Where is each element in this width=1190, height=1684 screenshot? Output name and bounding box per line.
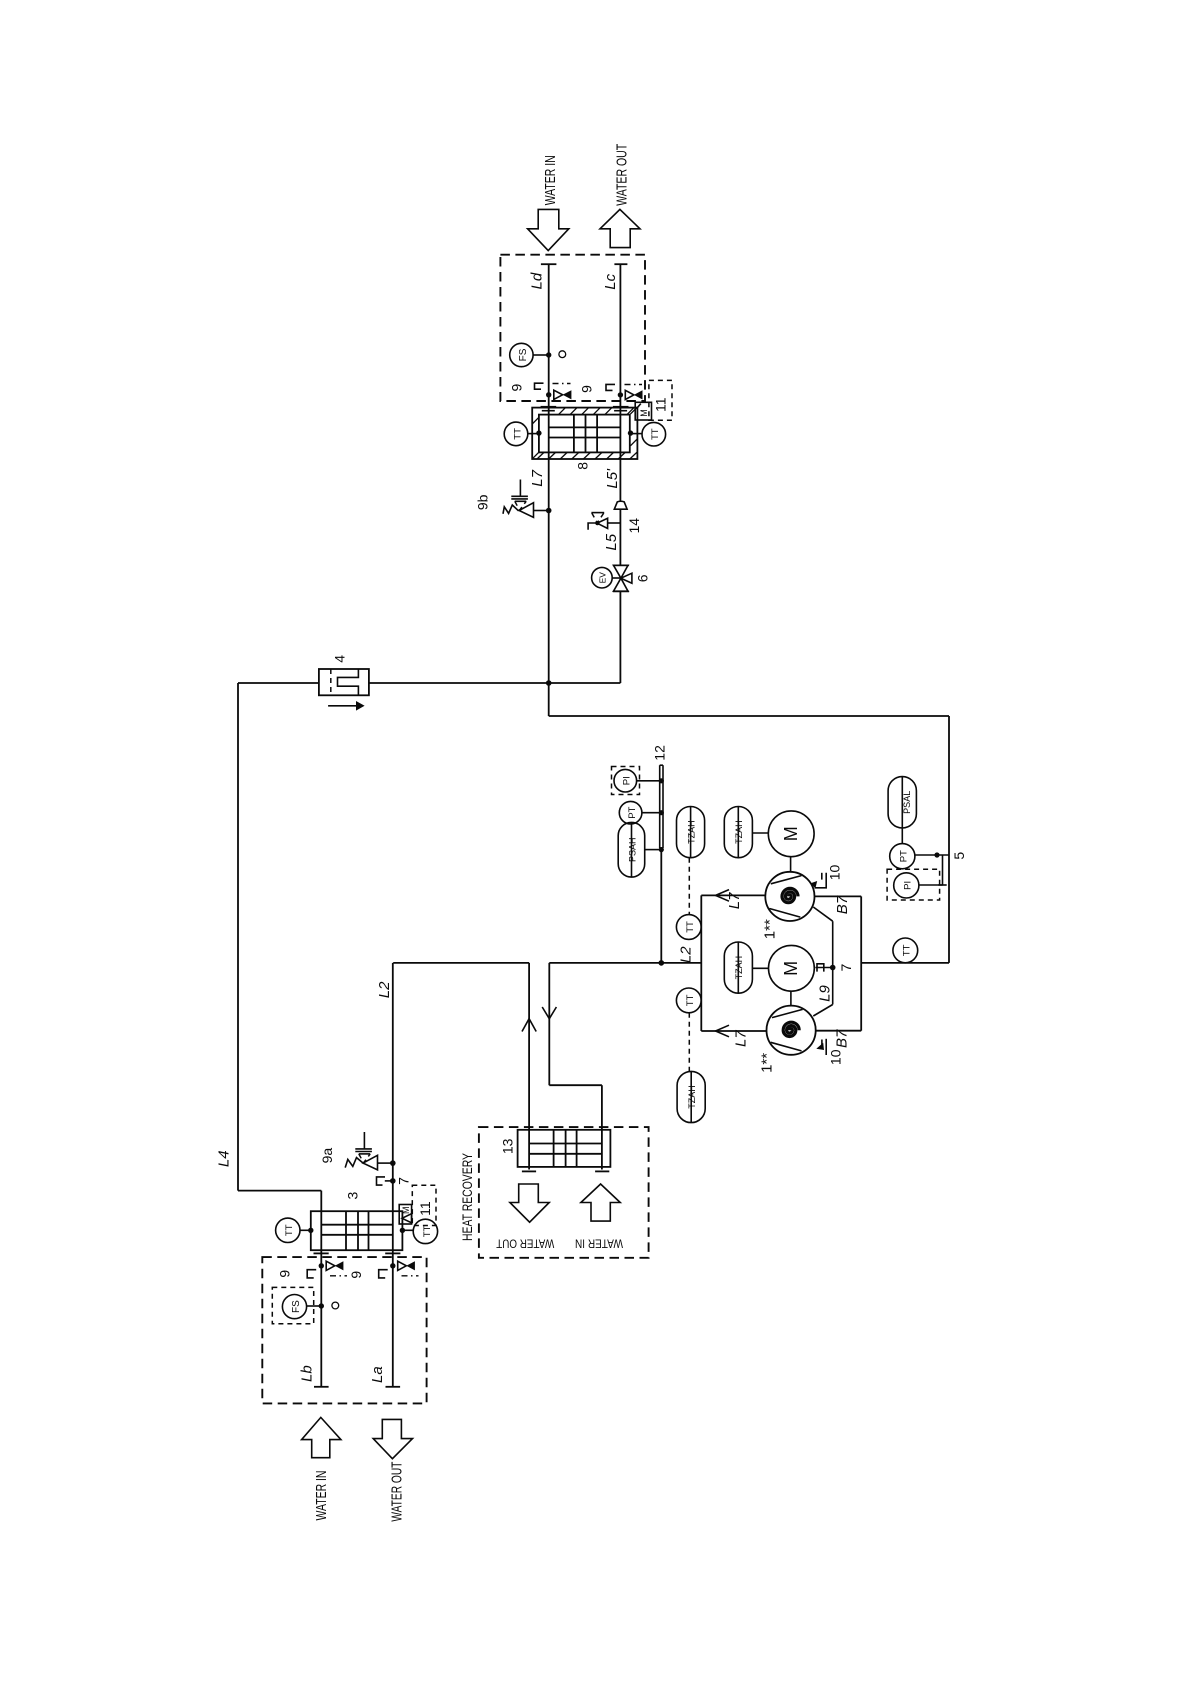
service valve 9 on La [390,1261,415,1270]
motor M (comp2) [769,945,815,1005]
label 1** (comp2) [759,1053,776,1073]
svg-text:10: 10 [827,865,843,881]
svg-text:10: 10 [828,1049,844,1065]
node 7 (oil line junction) [830,965,836,971]
label B7 (discharge comp1) [834,895,851,914]
motor valve 11 on Lc [618,390,643,399]
label WATER OUT (top) [614,144,631,206]
motor valve 11 (evaporator) [399,1205,411,1225]
svg-text:La: La [369,1366,386,1383]
label Lc [602,273,619,289]
pressure indicator PI (rail 12) [612,767,664,795]
svg-text:9b: 9b [475,494,491,510]
label L4 [215,1150,232,1167]
end tick La [386,1386,401,1388]
service valve 14 [588,513,620,530]
svg-text:WATER IN: WATER IN [575,1237,623,1251]
service valve 9 on Lb [319,1261,344,1270]
svg-text:B7: B7 [834,895,851,914]
svg-text:9: 9 [348,1271,364,1279]
label 1** (comp1) [762,919,779,939]
temperature transmitter TT (HX8 left) [504,422,541,446]
svg-text:TT: TT [685,921,696,933]
label L9 [817,985,834,1002]
label 9 (left service valve, bottom) [277,1270,293,1278]
wire liquid header (item 4 line) [238,682,620,684]
label Lb [299,1365,316,1382]
svg-text:Lc: Lc [602,273,619,289]
dash-dot stem (top left valve) [553,383,571,385]
flow arrow up (heat recovery supply) [522,1019,536,1032]
svg-text:WATER IN: WATER IN [542,155,559,205]
actuator M box (valve 11 top) [635,402,651,420]
compressor 1 (top) [765,872,814,921]
svg-text:9a: 9a [319,1148,335,1164]
node group 5 tap [934,852,939,857]
arrow water in (bottom, pointing up) [302,1417,341,1457]
motor M (comp1) [768,811,814,872]
wire L2 (from evaporator up) [392,963,394,1211]
label 10 (comp2) with leader [816,1039,843,1065]
svg-text:12: 12 [651,745,667,761]
label L7 (suction comp1) [726,892,743,909]
hatching on HX8 shell [532,408,637,459]
pressure transmitter PT (rail 12) [619,801,664,824]
trip switch TZAH (suction TT2, dashed link) [677,1071,705,1122]
label La [369,1366,386,1383]
svg-text:PSAL: PSAL [902,791,912,814]
label L7 (suction comp2) [733,1030,750,1047]
label L5 [603,533,620,550]
wire Lb [320,1252,322,1387]
coupling bracket (top right valve) [606,384,615,390]
flow arrow suction comp1 [716,890,730,902]
dash-dot stem (top right valve) [625,384,643,386]
svg-text:L5: L5 [603,533,620,550]
flow arrow down (heat recovery return) [542,1007,556,1019]
label 7 (oil junction) [838,963,854,971]
relief valve 9a [345,1132,395,1170]
flange right port HX3 [385,1252,400,1254]
svg-text:M: M [781,961,801,976]
svg-text:TZAH: TZAH [686,820,696,844]
node FS tap on Ld [546,352,551,357]
svg-text:EV: EV [598,572,608,584]
svg-text:WATER IN: WATER IN [313,1471,330,1521]
filter drier 4 [319,669,369,695]
expansion valve 6 (EV) [612,565,632,591]
label 9a [319,1148,335,1164]
oil equalisation line L9 [813,907,832,1016]
svg-text:11: 11 [417,1201,433,1216]
dashed unit boundary box (top water box) [500,255,645,401]
wire suction manifold [701,895,766,1031]
svg-text:8: 8 [575,462,591,470]
svg-text:PSAH: PSAH [627,837,637,862]
svg-text:Lb: Lb [299,1365,316,1382]
label HEAT RECOVERY [459,1153,475,1241]
instrument rail 12 [660,765,663,963]
label 4 [332,655,348,663]
dashed tag box 11 (top) [649,380,672,420]
svg-text:WATER OUT: WATER OUT [614,144,631,206]
svg-text:TZAH: TZAH [734,820,744,844]
temperature transmitter TT (HX8 right) [628,422,666,446]
pressure indicator PI (group 5) [887,855,947,900]
svg-text:1**: 1** [759,1053,776,1073]
svg-text:WATER OUT: WATER OUT [389,1462,406,1522]
node junction L7/liquid [546,680,552,686]
temperature transmitter TT (discharge) [893,938,918,963]
EV pilot circle [592,567,613,588]
heat exchanger 8 (condenser, hatched) [532,408,637,459]
label 8 [575,462,591,470]
instrument group 5: PSAL [888,777,916,844]
label L2 (evaporator riser) [376,981,393,998]
svg-text:TT: TT [422,1225,433,1237]
trip switch TZAH (comp2 motor) [724,942,768,993]
flow switch FS (top) [510,343,549,366]
coupling bracket (top left valve) [535,383,544,389]
temperature transmitter TT (suction comp2) [676,988,701,1071]
arrow water out (top, pointing up) [600,209,640,247]
coupling bracket (bottom right valve) [379,1270,388,1278]
label WATER OUT (bottom) [389,1462,406,1522]
svg-text:L5': L5' [604,468,621,489]
svg-text:5: 5 [951,852,967,860]
svg-text:PT: PT [627,806,638,818]
label 9 (right service valve, bottom) [348,1271,364,1279]
svg-text:L2: L2 [376,981,393,998]
svg-text:1**: 1** [762,919,779,939]
svg-text:9: 9 [579,385,595,393]
svg-text:B7: B7 [833,1029,850,1048]
svg-text:6: 6 [634,574,650,582]
arrow water in (heat recovery, pointing up) [581,1184,620,1221]
flange right port HX8 [613,406,629,411]
svg-text:Ld: Ld [529,272,546,289]
node rail 12 tap on L2 [659,960,665,966]
label WATER IN (top) [542,155,559,205]
wire L5' / L5 (liquid line down from HX8) [619,459,621,683]
label 9 (left service valve, top) [509,383,525,391]
svg-text:PI: PI [622,776,633,785]
label 3 [344,1191,360,1199]
temperature transmitter TT (HX3 right) [400,1219,438,1243]
svg-text:7: 7 [395,1177,411,1185]
flow arrow (item 4) [328,701,365,711]
end tick Lb [314,1386,329,1388]
label Ld [529,272,546,289]
port mark o (bottom) [332,1302,339,1309]
svg-text:FS: FS [518,348,529,361]
svg-text:M: M [639,409,649,417]
pressure switch PSAH [618,822,664,877]
svg-text:TT: TT [685,994,696,1006]
wire discharge manifold [815,896,950,1030]
svg-text:HEAT RECOVERY: HEAT RECOVERY [459,1153,475,1241]
label WATER OUT (heat recovery, inverted) [496,1237,555,1251]
arrow water out (bottom, pointing down) [373,1419,412,1458]
dashed unit boundary box (bottom water box) [262,1257,426,1403]
svg-text:TT: TT [650,428,661,440]
svg-text:9: 9 [277,1270,293,1278]
flange left port HX3 [314,1252,329,1254]
svg-text:TZAH: TZAH [734,956,744,980]
trip switch TZAH (comp1 motor) [724,807,768,858]
label L5' [604,468,621,489]
temperature transmitter TT (suction comp1) [676,915,701,940]
svg-text:PT: PT [899,850,910,862]
svg-text:13: 13 [499,1138,515,1154]
svg-text:L2: L2 [677,946,694,963]
svg-text:11: 11 [653,397,669,412]
svg-text:PI: PI [903,881,914,890]
svg-text:TZAH: TZAH [687,1085,697,1109]
label 10 (comp1) with leader [810,865,842,889]
svg-text:L4: L4 [215,1150,232,1167]
pressure transmitter PT (group 5) [890,844,949,869]
svg-text:4: 4 [332,655,348,663]
svg-text:3: 3 [344,1191,360,1199]
node 7 stub (hot gas port) [377,1177,396,1185]
label 9 (right service valve, top) [579,385,595,393]
port mark o (top) [559,351,566,358]
wire Lc (water line out of HX8) [614,264,627,407]
relief valve 9b [503,480,552,518]
service valve 9 on Ld [546,390,571,399]
svg-text:L7: L7 [529,469,546,486]
coupling bracket (bottom left valve) [307,1270,316,1278]
arrow water in (top, pointing down) [528,209,569,250]
svg-text:7: 7 [838,963,854,971]
dash-dot stem (bottom right valve) [402,1275,419,1277]
flow switch FS (bottom) [272,1287,321,1323]
svg-text:L7: L7 [733,1030,750,1047]
label 14 [626,518,642,534]
label WATER IN (heat recovery, inverted) [575,1237,623,1251]
wire Ld (water line into HX8) [541,264,557,407]
svg-text:9: 9 [509,383,525,391]
label B7 (discharge comp2) [833,1029,850,1048]
compressor 2 (bottom) [767,1006,816,1055]
flange left port HX13 [522,1170,536,1172]
temperature transmitter TT (HX3 left) [276,1218,314,1242]
svg-text:14: 14 [626,518,642,534]
label 13 [499,1138,515,1154]
label L2 (near compressors) [677,946,694,963]
flow arrow suction comp2 [716,1025,730,1037]
node FS tap on Lb [319,1303,324,1308]
heat exchanger 13 (heat recovery) [518,1130,611,1170]
sight glass / cap on L5 [614,501,627,509]
svg-text:L9: L9 [817,985,834,1002]
label 11 (top) [653,397,669,412]
svg-text:TT: TT [284,1224,295,1236]
wire L7 (hot gas line down from HX8) [549,459,949,963]
dash-dot stem (bottom left valve) [330,1275,347,1277]
wire L4 (liquid line to evaporator) [238,683,321,1211]
svg-text:TT: TT [512,428,523,440]
dashed boundary box (heat recovery) [479,1127,649,1258]
label 6 [634,574,650,582]
heat exchanger 3 (evaporator) [311,1211,403,1252]
svg-text:TT: TT [902,944,913,956]
label WATER IN (bottom) [313,1471,330,1521]
label 12 [651,745,667,761]
flange left port HX8 [541,406,557,411]
flange right port HX13 [595,1170,609,1172]
svg-text:L7: L7 [726,892,743,909]
label 7 (evaporator port) [395,1177,411,1185]
svg-text:WATER OUT: WATER OUT [496,1237,555,1251]
label 5 [951,852,967,860]
wire L2 (suction header) [393,963,701,1130]
trip switch TZAH (suction TT1, dashed link) [677,807,705,915]
svg-text:FS: FS [291,1300,302,1313]
arrow water out (heat recovery, pointing down) [510,1184,549,1222]
label 11 (evaporator) [417,1201,433,1216]
label L7 (upper) [529,469,546,486]
label 9b [475,494,491,510]
wire La [392,1252,394,1387]
dashed tag box 11 (evaporator) [412,1185,436,1225]
svg-text:M: M [781,826,801,841]
